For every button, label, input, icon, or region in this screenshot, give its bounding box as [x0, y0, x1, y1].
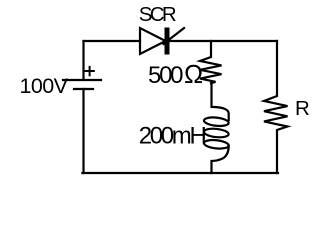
svg-text:Ω: Ω: [184, 61, 203, 89]
svg-text:200mH: 200mH: [139, 123, 207, 150]
svg-text:R: R: [295, 97, 310, 120]
svg-text:100V: 100V: [20, 74, 69, 98]
svg-text:500: 500: [148, 62, 184, 89]
svg-text:SCR: SCR: [139, 3, 177, 26]
